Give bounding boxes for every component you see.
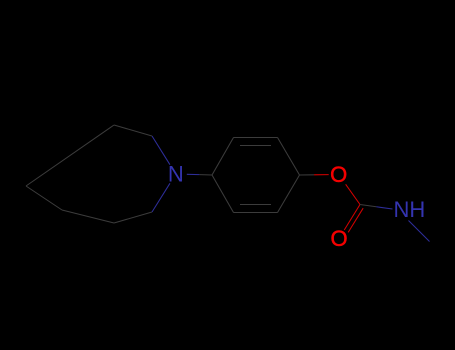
svg-text:O: O	[330, 162, 347, 187]
azepane bond C3-C4 (long upper-left edge to apex)	[26, 125, 114, 186]
bond benzene C4 to ester O	[300, 174, 315, 176]
benzene edge C4-C5	[278, 175, 300, 213]
benzene edge C5-C6 (double)	[234, 212, 278, 214]
azepane bond C2-C3	[114, 125, 152, 136]
svg-text:O: O	[330, 226, 347, 251]
benzene edge C1-C2	[212, 138, 234, 176]
azepane bond C4-C5 (apex to lower bend)	[26, 186, 62, 210]
C=O double bond line 2	[348, 208, 363, 232]
bond NH to methyl C	[409, 221, 430, 242]
C=O double bond line 1	[344, 205, 360, 230]
bond carbonyl C to NH	[360, 205, 376, 207]
azepane ring bond C7-N (lower)	[152, 183, 170, 212]
benzene edge C2-C3 (double)	[234, 137, 278, 139]
svg-text:N: N	[168, 162, 184, 187]
benzene edge C6-C1	[212, 175, 234, 213]
bond N to benzene C1	[187, 173, 200, 175]
benzene edge C3-C4	[278, 138, 300, 176]
azepane bond C6-C7 (lower-right)	[114, 212, 152, 223]
bond ester O to carbonyl C	[346, 184, 360, 204]
svg-text:NH: NH	[394, 197, 426, 222]
azepane bond C5-C6 (lower-left)	[62, 210, 114, 223]
azepane ring bond N-C2 (upper)	[152, 136, 170, 165]
